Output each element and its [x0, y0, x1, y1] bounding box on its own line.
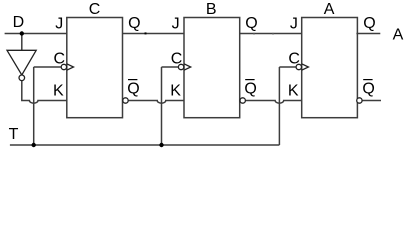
- svg-text:T: T: [9, 126, 19, 143]
- svg-text:K: K: [170, 82, 181, 99]
- svg-text:C: C: [54, 51, 66, 68]
- svg-text:Q: Q: [363, 15, 375, 32]
- svg-text:J: J: [172, 16, 180, 33]
- svg-text:Q: Q: [362, 81, 374, 98]
- svg-text:Q: Q: [128, 15, 140, 32]
- svg-text:C: C: [171, 51, 183, 68]
- svg-text:B: B: [206, 1, 217, 18]
- svg-text:C: C: [288, 51, 300, 68]
- svg-text:J: J: [290, 16, 298, 33]
- svg-text:Q: Q: [245, 15, 257, 32]
- svg-text:Q: Q: [127, 81, 139, 98]
- svg-text:A: A: [393, 26, 404, 43]
- svg-text:Q: Q: [244, 81, 256, 98]
- svg-text:J: J: [55, 16, 63, 33]
- svg-text:K: K: [288, 82, 299, 99]
- svg-text:K: K: [53, 82, 64, 99]
- svg-text:C: C: [89, 1, 101, 18]
- svg-text:D: D: [13, 14, 25, 31]
- svg-text:A: A: [324, 1, 335, 18]
